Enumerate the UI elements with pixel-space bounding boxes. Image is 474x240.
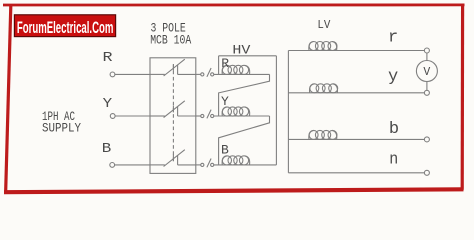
svg-text:R: R	[221, 56, 229, 71]
LV bus	[287, 51, 289, 173]
voltmeter leads	[426, 53, 428, 61]
MCB box	[150, 58, 196, 174]
HV winding Y wire	[214, 115, 270, 117]
HV node vertical R	[218, 56, 220, 75]
svg-text:Y: Y	[221, 94, 229, 109]
svg-text:r: r	[388, 29, 398, 48]
terminal n	[424, 170, 429, 175]
svg-text:LV: LV	[317, 18, 331, 32]
isolator fuse B	[196, 159, 214, 168]
terminal B	[110, 163, 115, 168]
svg-text:B: B	[221, 143, 229, 158]
svg-text:b: b	[389, 120, 399, 139]
LV wire r	[288, 50, 424, 52]
HV top rail	[219, 55, 277, 57]
terminal y	[424, 90, 429, 95]
label: 3 POLE MCB 10A	[150, 20, 191, 47]
svg-text:MCB 10A: MCB 10A	[150, 32, 191, 47]
wire R terminal to MCB	[115, 73, 150, 75]
HV right rail	[275, 56, 277, 165]
HV coil R	[222, 65, 250, 74]
MCB linkage dashed line	[172, 65, 174, 162]
svg-text:B: B	[102, 141, 112, 157]
MCB pole switch Y	[150, 101, 196, 118]
wire Y terminal to MCB	[115, 115, 150, 117]
svg-text:y: y	[388, 68, 398, 87]
LV wire y	[288, 92, 424, 94]
wire B terminal to MCB	[115, 164, 150, 166]
isolator fuse Y	[196, 110, 214, 119]
MCB pole switch R	[150, 59, 196, 76]
LV coil b	[309, 130, 337, 139]
svg-text:n: n	[389, 151, 398, 170]
HV zigzag R to Y	[219, 74, 270, 116]
HV coil B	[222, 156, 250, 165]
terminal Y	[110, 114, 115, 119]
svg-text:SUPPLY: SUPPLY	[42, 121, 81, 135]
HV winding R wire	[214, 73, 270, 75]
LV wire b	[288, 138, 424, 140]
HV coil Y	[222, 107, 250, 116]
svg-text:Y: Y	[103, 96, 113, 112]
logo ForumElectrical.Com	[14, 15, 115, 37]
LV wire n	[288, 172, 424, 174]
isolator fuse R	[196, 68, 214, 77]
LV coil r	[309, 42, 337, 51]
HV zigzag Y to B	[219, 116, 270, 165]
terminal r	[424, 48, 429, 53]
HV winding B wire	[214, 164, 277, 166]
LV coil y	[310, 84, 338, 93]
MCB pole switch B	[150, 150, 196, 167]
svg-text:ForumElectrical.Com: ForumElectrical.Com	[17, 18, 114, 37]
page border frame	[3, 4, 465, 192]
terminal b	[424, 137, 429, 142]
svg-text:R: R	[103, 50, 114, 66]
terminal R	[110, 72, 115, 77]
label: 1PH AC SUPPLY	[42, 110, 81, 135]
voltmeter V	[416, 61, 437, 82]
svg-text:V: V	[423, 66, 430, 79]
